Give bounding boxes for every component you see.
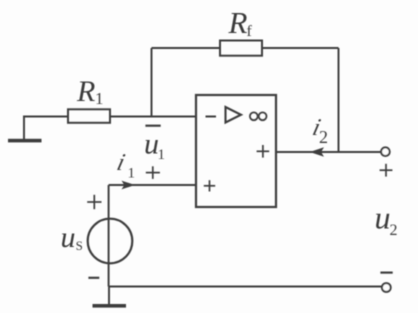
svg-text:1: 1 — [128, 166, 136, 182]
op-amp U1 body — [196, 95, 276, 207]
svg-text:u: u — [375, 199, 391, 235]
ground (left) — [8, 117, 42, 143]
svg-text:1: 1 — [95, 89, 104, 108]
svg-text:R: R — [228, 5, 248, 40]
label i2 — [310, 114, 328, 147]
resistor Rf — [220, 41, 262, 56]
output terminal (top) — [381, 147, 390, 156]
wire bottom horizontal — [109, 286, 382, 288]
op-amp inverting input marker — [206, 116, 217, 118]
wire output horizontal — [276, 151, 381, 153]
svg-text:u: u — [61, 221, 76, 254]
plus marker below top terminal — [380, 164, 393, 177]
svg-text:S: S — [76, 238, 83, 253]
label R1 — [76, 75, 104, 108]
wire feedback top right — [262, 47, 339, 49]
op-amp output plus marker — [257, 145, 270, 158]
op-amp non-inverting plus marker — [204, 180, 215, 191]
op-amp triangle symbol — [226, 107, 242, 123]
label i1 — [114, 149, 135, 181]
wire non-inverting input — [109, 184, 196, 186]
svg-text:i: i — [114, 149, 128, 176]
wire R1 to inverting input — [110, 116, 196, 118]
wire source vertical — [108, 185, 110, 287]
svg-text:R: R — [76, 75, 95, 108]
wire feedback vertical right — [338, 48, 340, 152]
current arrow i1 — [122, 181, 136, 190]
ground (bottom) — [93, 287, 127, 308]
output terminal (bottom) — [382, 283, 391, 292]
svg-text:2: 2 — [319, 127, 328, 147]
svg-text:1: 1 — [158, 147, 166, 163]
label Rf — [228, 5, 253, 40]
label uS — [61, 221, 83, 254]
plus marker u1 — [146, 166, 160, 179]
current arrow i2 — [310, 147, 324, 157]
label u2 — [375, 199, 398, 239]
label u1 — [144, 127, 165, 163]
svg-text:2: 2 — [390, 222, 398, 239]
minus marker above bottom terminal — [380, 272, 392, 274]
plus marker above source — [87, 195, 101, 209]
minus marker u1 — [145, 125, 160, 127]
voltage source uS circle — [88, 219, 133, 264]
wire feedback vertical left — [151, 48, 153, 117]
wire ground to R1 — [23, 116, 68, 118]
resistor R1 — [68, 109, 110, 123]
minus marker below source — [88, 277, 99, 279]
wire feedback top left — [152, 47, 221, 49]
svg-text:f: f — [247, 23, 253, 40]
op-amp infinity gain symbol — [250, 112, 267, 120]
